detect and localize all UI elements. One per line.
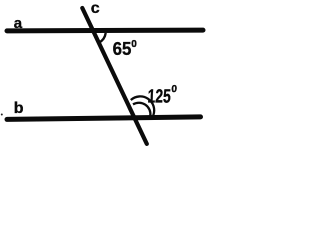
svg-text:65: 65 [113, 38, 132, 59]
svg-text:c: c [91, 0, 100, 17]
angle arc at intersection of a and c [99, 33, 106, 43]
svg-text:a: a [14, 15, 23, 32]
transversal line c [82, 8, 147, 144]
parallel line b [7, 117, 201, 120]
svg-text:b: b [14, 100, 24, 117]
svg-text:125: 125 [147, 87, 172, 108]
parallel line a [7, 28, 203, 34]
speck left of line b [1, 114, 3, 116]
inner angle arc at intersection of b and c [133, 103, 150, 116]
svg-text:0: 0 [171, 84, 178, 95]
svg-text:0: 0 [131, 39, 137, 50]
outer angle arc at intersection of b and c [131, 96, 154, 115]
